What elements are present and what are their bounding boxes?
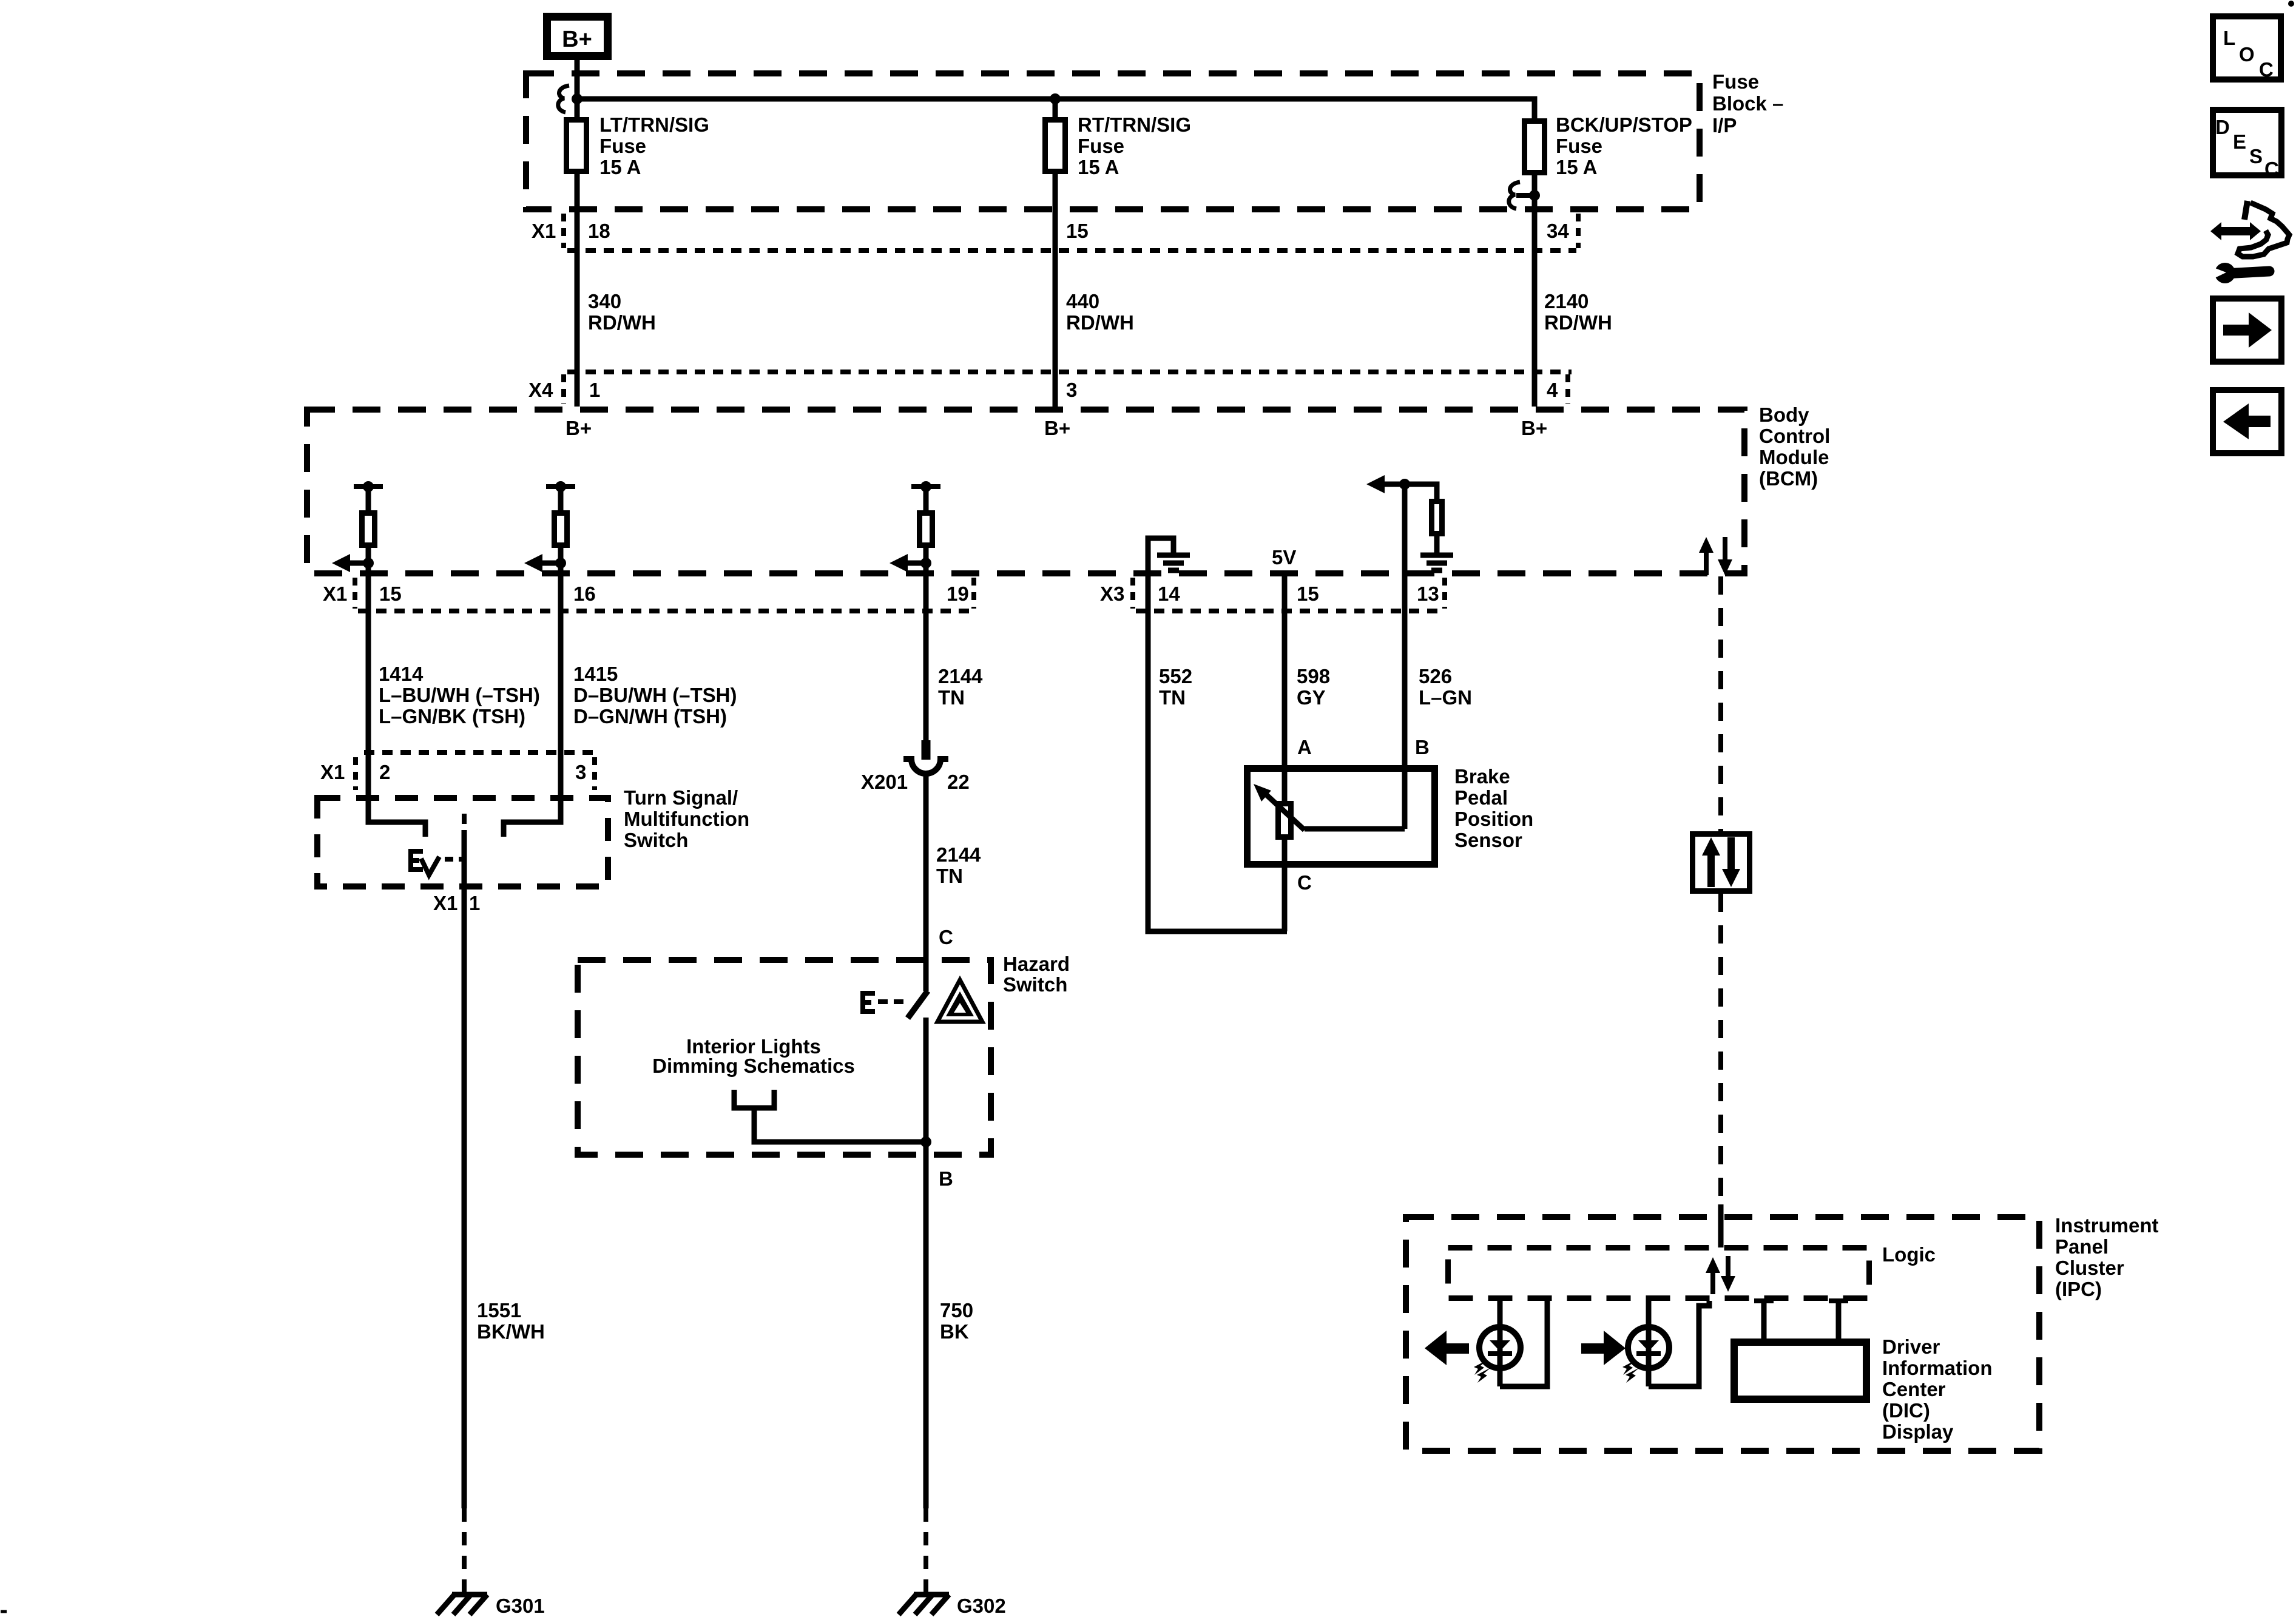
svg-text:1415: 1415: [573, 663, 618, 685]
wire label 598 GY: [1297, 665, 1330, 709]
potentiometer element BPP sensor: [1278, 804, 1291, 837]
arrow right turn output signal direction: [524, 554, 561, 572]
icon box LOC: [2213, 16, 2281, 81]
svg-text:552: 552: [1159, 665, 1192, 687]
potentiometer wiper arrow: [1254, 784, 1305, 830]
wire label 440 RD/WH: [1066, 290, 1134, 334]
svg-text:D: D: [2215, 116, 2230, 138]
connector X201 inline female socket: [903, 759, 948, 774]
svg-text:598: 598: [1297, 665, 1330, 687]
svg-text:1: 1: [589, 379, 600, 401]
arrow icon right turn (filled): [1581, 1331, 1626, 1365]
svg-text:Control: Control: [1759, 425, 1830, 447]
junction below BCK fuse: [1529, 190, 1540, 201]
wire right turn output to output pin: [558, 548, 564, 576]
wire hazard feed output to output pin: [923, 548, 929, 576]
separator right of pin 34: [1576, 214, 1581, 248]
wire branch to RT fuse: [1053, 99, 1058, 119]
pin 1 of turn switch output: [469, 892, 480, 914]
node 5V reference label: [1272, 546, 1296, 569]
svg-text:Display: Display: [1882, 1420, 1954, 1443]
svg-text:3: 3: [1066, 379, 1077, 401]
label connector X4: [528, 379, 553, 401]
wire left turn indicator branch: [1500, 1301, 1547, 1386]
label Driver Information Center (DIC) Display: [1882, 1335, 1992, 1443]
svg-text:13: 13: [1417, 582, 1439, 605]
svg-text:B: B: [939, 1167, 953, 1190]
pin 18 of X1: [588, 220, 610, 242]
svg-text:Fuse: Fuse: [1712, 70, 1759, 93]
arrow pair serial data at BCM edge: [1699, 537, 1732, 575]
svg-text:Switch: Switch: [624, 829, 688, 851]
mechanical link dashes hazard: [878, 999, 905, 1004]
pin 15 of BCM X1: [379, 582, 402, 605]
resistor R right turn output: [555, 513, 567, 545]
ground G302: [899, 1595, 1006, 1617]
pin 22 of X201: [947, 771, 970, 793]
pin 19 of BCM X1: [947, 582, 969, 605]
wire label 1551 BK/WH: [477, 1299, 545, 1343]
wire label 340 RD/WH: [588, 290, 656, 334]
junction left turn output output node: [363, 558, 374, 569]
arrow pair inside serial data symbol: [1702, 837, 1740, 887]
svg-text:2: 2: [379, 761, 390, 783]
svg-text:5V: 5V: [1272, 546, 1296, 569]
wire hazard feed output driver: [923, 487, 929, 513]
connector X3 BCM output row dotted line: [1136, 609, 1445, 613]
svg-text:TN: TN: [1159, 686, 1186, 709]
svg-text:L: L: [2223, 27, 2235, 49]
LED symbol right turn: [1636, 1340, 1661, 1354]
wire 750 ground lead dashed: [923, 1508, 928, 1592]
svg-text:B+: B+: [566, 417, 592, 439]
pin 34 of X1: [1547, 220, 1569, 242]
svg-text:BK/WH: BK/WH: [477, 1320, 545, 1343]
svg-text:526: 526: [1419, 665, 1452, 687]
ground G301: [437, 1595, 545, 1617]
svg-text:2140: 2140: [1544, 290, 1589, 312]
resistor BCM internal driver hazard feed output top bar: [911, 484, 940, 489]
junction hazard feed output output node: [920, 558, 931, 569]
svg-text:L–GN/BK (TSH): L–GN/BK (TSH): [379, 705, 525, 727]
svg-text:C: C: [2264, 158, 2279, 180]
label connector X1 BCM: [323, 582, 347, 605]
wire label 2140 RD/WH: [1544, 290, 1612, 334]
wire DIC display stubs: [1754, 1301, 1848, 1338]
wire pull-up to ground: [1434, 536, 1440, 553]
switch actuator E symbol turn switch: [408, 849, 423, 872]
svg-text:X1: X1: [532, 220, 556, 242]
wire BCM brake signal X3-13 internal: [1402, 484, 1408, 576]
junction top of right turn output driver: [555, 481, 566, 492]
svg-text:4: 4: [1547, 379, 1558, 401]
svg-text:Sensor: Sensor: [1454, 829, 1522, 851]
svg-text:D–BU/WH (–TSH): D–BU/WH (–TSH): [573, 684, 737, 706]
wire B+ feed down into fuse block: [575, 60, 580, 119]
svg-text:Hazard: Hazard: [1003, 953, 1070, 975]
svg-text:Panel: Panel: [2055, 1235, 2109, 1258]
hazard warning triangle icon: [937, 980, 982, 1022]
svg-text:Logic: Logic: [1882, 1243, 1936, 1266]
resistor R left turn output: [362, 513, 375, 545]
wire circuit 552 from X3-14 to BPP sensor C: [1148, 576, 1287, 931]
label Turn Signal Multifunction Switch: [624, 786, 749, 851]
separator right of pin 19: [971, 578, 976, 609]
icon hand with double arrow and wrench: [2210, 201, 2289, 283]
LED symbol left turn: [1488, 1340, 1512, 1354]
arrow left turn output signal direction: [332, 554, 368, 572]
component box Hazard Switch (dashed): [578, 960, 991, 1155]
svg-text:Turn Signal/: Turn Signal/: [624, 786, 738, 809]
label RT/TRN/SIG Fuse 15 A: [1078, 113, 1191, 178]
svg-text:TN: TN: [936, 865, 963, 887]
wire circuit 598 5V reference to sensor A: [1282, 576, 1288, 803]
component box Logic (dashed): [1448, 1248, 1869, 1298]
svg-text:340: 340: [588, 290, 621, 312]
separator X1 BCM label: [353, 578, 357, 609]
node B+ inside BCM middle: [1044, 417, 1070, 439]
separator right of pin 4: [1565, 374, 1570, 404]
label Interior Lights Dimming Schematics: [652, 1035, 855, 1077]
svg-text:Body: Body: [1759, 403, 1809, 426]
svg-text:X3: X3: [1100, 582, 1124, 605]
wire circuit 526 signal from sensor B: [1402, 576, 1408, 829]
separator X3 BCM label: [1130, 578, 1135, 609]
wire BCM internal ground from X3-14: [1148, 538, 1173, 576]
svg-text:15: 15: [1066, 220, 1089, 242]
svg-text:1: 1: [469, 892, 480, 914]
wire circuit 2144 hazard feed upper: [923, 576, 929, 741]
connector X4 BCM pin row dotted line: [567, 370, 1572, 374]
junction B+ bus at LT fuse: [572, 93, 582, 104]
svg-text:3: 3: [575, 761, 586, 783]
fuse F1 LT/TRN/SIG 15A: [567, 120, 587, 172]
serial data connector symbol box: [1693, 834, 1750, 891]
svg-text:Instrument: Instrument: [2055, 1214, 2159, 1237]
interior lights dimming connection bracket: [734, 1090, 923, 1142]
junction hazard lamp feed: [920, 1136, 931, 1147]
component box Instrument Panel Cluster IPC (dashed): [1406, 1217, 2039, 1451]
svg-text:15: 15: [379, 582, 402, 605]
svg-text:RD/WH: RD/WH: [588, 311, 656, 334]
wire circuit 1551 BK/WH to ground: [462, 890, 467, 1508]
svg-text:G302: G302: [957, 1595, 1006, 1617]
resistor BCM internal driver right turn output top bar: [546, 484, 575, 489]
svg-text:Module: Module: [1759, 446, 1829, 468]
wire circuit 2144 lower to hazard switch: [923, 775, 929, 991]
connector X201 inline male pin: [922, 740, 931, 760]
svg-text:X1: X1: [320, 761, 345, 783]
label Brake Pedal Position Sensor: [1454, 765, 1533, 851]
pin 4 of X4: [1547, 379, 1558, 401]
wire sensor output pin C: [1282, 840, 1288, 931]
svg-text:Multifunction: Multifunction: [624, 808, 749, 830]
svg-text:Center: Center: [1882, 1378, 1946, 1400]
wire turn switch common output: [462, 830, 467, 890]
switch S turn signal wiper arrow: [421, 857, 439, 875]
wire circuit 1415 right turn signal: [558, 576, 564, 752]
svg-text:Switch: Switch: [1003, 973, 1067, 996]
power symbol B+ battery positive voltage box: [547, 17, 608, 56]
component box Body Control Module BCM (dashed): [307, 410, 1744, 573]
wire right turn output driver: [558, 487, 564, 513]
ground symbol inside BCM right: [1420, 555, 1453, 570]
separator right of pin 3: [592, 757, 597, 790]
label connector X1 turn switch: [320, 761, 345, 783]
fuse F3 BCK/UP/STOP 15A: [1525, 121, 1545, 173]
separator X1 label: [561, 214, 566, 248]
icon box DESC: [2213, 110, 2281, 180]
svg-text:L–BU/WH (–TSH): L–BU/WH (–TSH): [379, 684, 540, 706]
label Fuse Block - I/P: [1712, 70, 1783, 137]
pin A of BPP sensor: [1297, 736, 1312, 758]
svg-text:14: 14: [1158, 582, 1180, 605]
svg-text:Fuse: Fuse: [1556, 135, 1602, 157]
wire label 1414 L-BU/WH L-GN/BK: [379, 663, 540, 727]
svg-text:GY: GY: [1297, 686, 1326, 709]
component box Brake Pedal Position Sensor: [1248, 769, 1435, 865]
wire label 526 L-GN: [1419, 665, 1472, 709]
stray mark bottom left corner: [1, 1610, 7, 1613]
wire label 2144 TN lower: [936, 843, 981, 887]
svg-text:Brake: Brake: [1454, 765, 1510, 788]
wire label 2144 TN upper: [938, 665, 983, 709]
LED emission arrows left: [1474, 1360, 1491, 1383]
arrow hazard feed output signal direction: [890, 554, 926, 572]
svg-text:X1: X1: [323, 582, 347, 605]
wire turn switch right contact: [504, 752, 561, 837]
svg-text:L–GN: L–GN: [1419, 686, 1472, 709]
svg-text:(IPC): (IPC): [2055, 1278, 2102, 1300]
svg-text:BCK/UP/STOP: BCK/UP/STOP: [1556, 113, 1692, 136]
wire label 552 TN: [1159, 665, 1192, 709]
bus squiggle tap below BCK/UP/STOP fuse: [1509, 182, 1535, 209]
bus bar squiggle tap at LT/TRN/SIG fuse: [558, 86, 569, 112]
wire BCK fuse output down to connector X1-34: [1532, 175, 1538, 407]
svg-text:RT/TRN/SIG: RT/TRN/SIG: [1078, 113, 1191, 136]
svg-text:Driver: Driver: [1882, 1335, 1940, 1358]
wire turn switch common stub: [462, 814, 467, 824]
arrow icon left turn (filled): [1425, 1331, 1469, 1365]
wire left turn output driver: [366, 487, 371, 513]
pin 15 of X1: [1066, 220, 1089, 242]
svg-text:RD/WH: RD/WH: [1544, 311, 1612, 334]
fuse F2 RT/TRN/SIG 15A: [1045, 120, 1065, 172]
svg-text:2144: 2144: [936, 843, 981, 866]
svg-text:BK: BK: [940, 1320, 969, 1343]
mechanical link dashes turn switch: [445, 857, 462, 862]
svg-text:I/P: I/P: [1712, 114, 1737, 137]
wire circuit 750 BK to ground: [923, 1158, 929, 1508]
component box Fuse Block - I/P (dashed): [526, 73, 1700, 209]
wire LT fuse output down to connector X1-18: [575, 174, 580, 407]
pin 14 of X3: [1158, 582, 1180, 605]
svg-text:C: C: [2259, 58, 2274, 81]
svg-text:Fuse: Fuse: [1078, 135, 1124, 157]
wire RT fuse output down to connector X1-15: [1053, 174, 1058, 407]
LED emission arrows right: [1622, 1360, 1639, 1383]
wire right turn indicator branch: [1649, 1301, 1709, 1386]
wire serial data link dashed lower: [1718, 894, 1723, 1204]
pin B of hazard switch: [939, 1167, 953, 1190]
junction top of left turn output driver: [363, 481, 374, 492]
pin 15 of X3: [1297, 582, 1319, 605]
svg-text:C: C: [1297, 871, 1312, 894]
svg-text:34: 34: [1547, 220, 1569, 242]
svg-text:(DIC): (DIC): [1882, 1399, 1930, 1422]
svg-text:15 A: 15 A: [1078, 156, 1119, 178]
junction top of hazard feed output driver: [920, 481, 931, 492]
wire circuit 1414 left turn signal: [366, 576, 371, 752]
component Driver Information Center DIC display: [1734, 1342, 1866, 1399]
wire sensor wiper feed from pin B: [1305, 826, 1405, 832]
svg-text:Information: Information: [1882, 1357, 1992, 1379]
indicator lamp left turn LED circle: [1479, 1327, 1521, 1368]
svg-text:B+: B+: [1521, 417, 1547, 439]
wire turn switch left contact: [368, 752, 425, 837]
pin 13 of X3: [1417, 582, 1439, 605]
svg-text:1414: 1414: [379, 663, 424, 685]
svg-text:19: 19: [947, 582, 969, 605]
switch S hazard blade: [908, 991, 928, 1018]
resistor R hazard feed output: [920, 513, 933, 545]
wire label 750 BK: [940, 1299, 973, 1343]
label connector X201: [861, 771, 908, 793]
svg-text:18: 18: [588, 220, 610, 242]
wire hazard switch output to B: [923, 1018, 929, 1158]
arrow pair serial data into logic: [1706, 1256, 1735, 1294]
svg-text:Fuse: Fuse: [599, 135, 646, 157]
wire B+ bus bar across fuse block: [577, 99, 1535, 121]
svg-text:O: O: [2239, 43, 2255, 66]
connector row X1 turn signal switch dotted line: [364, 750, 595, 755]
arrow brake signal into logic: [1366, 475, 1405, 493]
wire left turn output to output pin: [366, 548, 371, 576]
svg-text:Position: Position: [1454, 808, 1533, 830]
wire 1551 ground lead dashed: [462, 1508, 467, 1592]
svg-text:440: 440: [1066, 290, 1099, 312]
pin 3 of turn switch X1: [575, 761, 586, 783]
junction right turn output output node: [555, 558, 566, 569]
svg-text:X1: X1: [433, 892, 458, 914]
svg-text:B+: B+: [562, 27, 592, 52]
ground symbol inside BCM left: [1157, 555, 1190, 570]
svg-text:15 A: 15 A: [599, 156, 641, 178]
node B+ inside BCM left: [566, 417, 592, 439]
svg-text:TN: TN: [938, 686, 965, 709]
stray mark top right corner: [2288, 1, 2294, 7]
wire label 1415 D-BU/WH D-GN/WH: [573, 663, 737, 727]
svg-text:RD/WH: RD/WH: [1066, 311, 1134, 334]
label LT/TRN/SIG Fuse 15 A: [599, 113, 709, 178]
svg-text:X201: X201: [861, 771, 908, 793]
wire brake pull-up: [1405, 484, 1437, 501]
svg-text:Dimming Schematics: Dimming Schematics: [652, 1055, 855, 1077]
pin C of hazard switch: [939, 926, 953, 948]
label connector X1 below turn switch: [433, 892, 458, 914]
junction brake signal node: [1399, 479, 1410, 490]
svg-text:A: A: [1297, 736, 1312, 758]
svg-text:15 A: 15 A: [1556, 156, 1597, 178]
svg-text:G301: G301: [496, 1595, 545, 1617]
svg-text:D–GN/WH (TSH): D–GN/WH (TSH): [573, 705, 727, 727]
svg-text:Pedal: Pedal: [1454, 786, 1508, 809]
pin 2 of turn switch X1: [379, 761, 390, 783]
connector X1 fuse block pin row dotted line: [567, 248, 1576, 253]
label connector X3 BCM: [1100, 582, 1124, 605]
pin 1 of X4: [589, 379, 600, 401]
label Instrument Panel Cluster (IPC): [2055, 1214, 2159, 1300]
svg-text:22: 22: [947, 771, 970, 793]
label Body Control Module (BCM): [1759, 403, 1830, 490]
svg-text:1551: 1551: [477, 1299, 521, 1322]
resistor R pull-up brake signal: [1432, 502, 1442, 534]
svg-text:2144: 2144: [938, 665, 983, 687]
resistor BCM internal driver left turn output top bar: [354, 484, 383, 489]
wire serial data link at IPC: [1718, 1204, 1724, 1247]
label Logic: [1882, 1243, 1936, 1266]
svg-text:X4: X4: [528, 379, 553, 401]
svg-text:E: E: [2233, 130, 2246, 153]
pin 16 of BCM X1: [573, 582, 596, 605]
svg-text:(BCM): (BCM): [1759, 467, 1818, 490]
label BCK/UP/STOP Fuse 15 A: [1556, 113, 1692, 178]
wire serial data link dashed upper: [1718, 576, 1723, 831]
svg-text:15: 15: [1297, 582, 1319, 605]
svg-text:S: S: [2249, 145, 2263, 167]
pin B of BPP sensor: [1415, 736, 1430, 758]
label Hazard Switch: [1003, 953, 1070, 996]
junction B+ bus at RT fuse: [1050, 93, 1061, 104]
icon box arrow left: [2213, 390, 2281, 453]
pin C of BPP sensor: [1297, 871, 1312, 894]
svg-text:B: B: [1415, 736, 1430, 758]
indicator lamp right turn LED circle: [1628, 1327, 1669, 1368]
separator X1 turn switch: [353, 757, 358, 790]
separator right of pin 13: [1442, 578, 1447, 609]
label connector X1: [532, 220, 556, 242]
pin 3 of X4: [1066, 379, 1077, 401]
svg-text:LT/TRN/SIG: LT/TRN/SIG: [599, 113, 709, 136]
component box Turn Signal/Multifunction Switch (dashed): [317, 798, 608, 886]
separator X4 label: [561, 374, 566, 404]
node B+ inside BCM right: [1521, 417, 1547, 439]
icon box arrow right: [2213, 299, 2281, 362]
svg-text:750: 750: [940, 1299, 973, 1322]
svg-text:B+: B+: [1044, 417, 1070, 439]
connector X1 BCM output row dotted line: [358, 609, 974, 613]
svg-text:Block –: Block –: [1712, 92, 1783, 115]
svg-text:C: C: [939, 926, 953, 948]
switch actuator E symbol hazard: [860, 991, 875, 1014]
svg-text:16: 16: [573, 582, 596, 605]
svg-text:Cluster: Cluster: [2055, 1257, 2124, 1279]
